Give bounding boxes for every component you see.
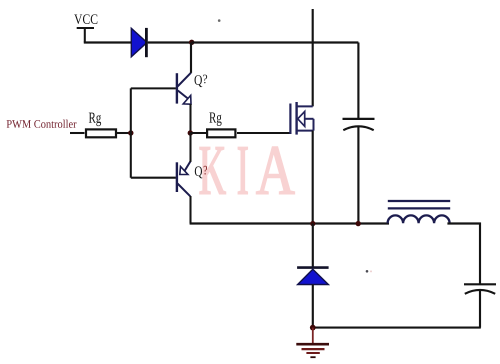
wire Rg1 to node B [116,132,132,134]
resistor Rg2 label [209,112,221,126]
wire M1 source vertical [312,131,314,224]
transistor Q1 (NPN) base bar [176,73,178,103]
wire node C to Rg2 [190,132,207,134]
transistor Q1 emitter arrowhead [183,95,191,104]
diode D2 (blue, pointing up) [298,269,329,284]
MOSFET M1 channel bar [295,102,297,135]
wire D1 to node A [148,41,192,43]
wire Q2 collector vertical [189,196,191,224]
wire bottom mid rail [190,222,389,224]
wire Rg2 to MOSFET gate [237,132,290,134]
wire VCC stub down [84,28,86,43]
resistor Rg2 body [207,129,235,137]
diode D1 cathode bar [145,28,148,57]
wire bottom rail [313,327,481,329]
wire top rail node A to cap C1 branch [192,41,359,43]
label Q2 "?" (maroon) [204,166,207,175]
capacitor C1 bottom lead [357,126,359,224]
watermark KIA letter I [238,147,247,193]
stray speck 2 [366,270,369,273]
wire Q1 emitter vertical [189,104,191,133]
capacitor C1 top plate [343,118,375,120]
VCC terminal bar [77,27,94,29]
stray speck 1 [218,19,221,22]
ground bar 4 [310,356,315,358]
node A junction dot [189,40,194,45]
PWM Controller label [7,120,77,128]
watermark KIA letter A [256,147,294,194]
transistor Q1 collector diagonal [178,73,192,87]
transistor Q2 emitter arrowhead [180,167,188,175]
resistor Rg1 body [86,129,116,137]
node C junction dot (driver output) [188,130,193,135]
transistor Q2 collector diagonal [178,184,191,197]
node D junction dot (source node) [310,221,315,226]
ground stub [312,328,314,344]
node F junction dot (ground node) [310,325,316,331]
MOSFET M1 drain stub [297,105,313,107]
MOSFET M1 source stub [297,130,314,132]
watermark KIA letter K [200,147,295,194]
VCC label [74,14,97,24]
wire PWM controller lead [70,132,85,134]
transistor Q2 (PNP) base bar [176,162,178,192]
wire Q2 emitter vertical [189,133,191,162]
diode D1 (blue, pointing right) [131,28,147,57]
ground bar 1 [296,343,329,346]
resistor Rg1 label [89,113,101,127]
node B junction dot [128,130,133,135]
wire D2 anode to bottom rail [312,285,314,328]
MOSFET M1 gate bar [289,104,291,135]
wire right rail down to C2 [479,223,481,285]
node E junction dot (cap C1 branch) [356,221,361,226]
wire PNP base lead [131,177,176,179]
wire C2 bottom lead [479,290,481,328]
capacitor C1 top lead [357,43,359,119]
label Q1 "Q?" [194,75,202,87]
wire base bus vertical [130,88,132,177]
wire drain input vertical [312,9,314,106]
MOSFET M1 body-source link [313,119,315,131]
inductor L1 core line 1 [388,200,450,202]
transistor Q2 emitter diagonal [185,161,191,171]
MOSFET M1 body stub [305,118,314,120]
wire L1 to right rail [447,222,480,224]
capacitor C2 top plate [464,283,496,285]
inductor L1 winding [388,215,450,223]
ground bar 3 [306,352,319,354]
wire Q1 collector vertical [190,43,192,73]
label Q2 "Q" [195,166,203,178]
ground bar 2 [302,348,325,350]
wire NPN base lead [131,87,176,89]
inductor L1 core line 2 [388,207,450,209]
capacitor C1 bottom plate (curved) [343,126,373,130]
wire VCC to diode D1 anode [84,41,132,43]
transistor Q1 emitter diagonal with arrow [178,91,188,99]
MOSFET M1 body arrow (open, pointing left) [298,112,305,127]
wire node D to diode D2 [312,224,314,267]
diode D2 cathode bar [297,266,329,269]
capacitor C2 bottom plate (curved) [465,290,495,294]
